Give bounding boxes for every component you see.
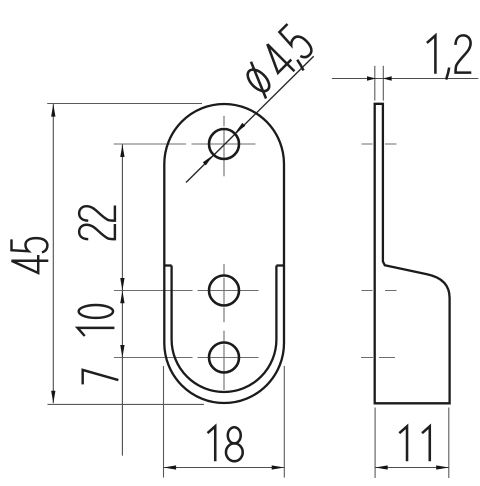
node hole1 top <box>209 129 239 159</box>
node arrow 11 right <box>436 465 449 469</box>
node outer stadium plate <box>164 104 284 403</box>
node hole2 vertical centerline <box>223 264 225 322</box>
node flange tick left <box>164 264 171 266</box>
node hole1 horizontal centerline <box>114 143 256 145</box>
node arrow 45 top <box>51 104 55 117</box>
node arrow 18 right <box>272 465 285 469</box>
node arrow 11 left <box>375 465 388 469</box>
wire dim 11 <box>375 467 449 469</box>
node text 11 <box>399 426 429 461</box>
node arrow 1,2 left <box>367 76 376 80</box>
node hole2 middle <box>209 276 239 306</box>
wire dim 18 <box>164 467 285 469</box>
node side hole2 centerline <box>362 290 397 292</box>
wire dim 1,2 <box>332 78 478 80</box>
node hole3 vertical centerline <box>223 331 225 390</box>
node flange tick right <box>276 264 284 266</box>
wire dim 45 vertical <box>52 104 54 403</box>
node text 7 <box>83 370 119 384</box>
node hole3 bottom <box>209 343 239 373</box>
node arrow 1,2 right <box>383 76 392 80</box>
wire ext 18 right <box>283 366 285 478</box>
node arrow 10 bottom <box>120 345 124 358</box>
node text 10 <box>78 305 115 336</box>
node arrow 10 top <box>120 291 124 304</box>
node arrow leader upper <box>233 123 245 135</box>
wire dim chain 22/10/7 vertical <box>121 144 123 455</box>
node text 1,2 <box>427 35 471 79</box>
node text 18 <box>208 426 243 461</box>
node side hole1 centerline <box>362 143 397 145</box>
node arrow 22 bottom <box>120 278 124 291</box>
node arrow leader lower <box>203 153 215 165</box>
wire ext 1,2 right <box>382 66 384 101</box>
node arrow 22 top <box>120 144 124 157</box>
node text dia 4,5 <box>239 23 319 103</box>
node hole1 vertical centerline <box>223 116 225 176</box>
node side profile <box>375 104 450 404</box>
node hole2 horizontal centerline <box>114 290 259 292</box>
wire ext 1,2 left <box>374 66 376 101</box>
node text 45 <box>11 238 48 273</box>
node side hole3 centerline <box>361 357 395 359</box>
wire ext 11 right <box>448 408 450 479</box>
node text 22 <box>79 206 115 240</box>
node inner flange U <box>172 266 277 392</box>
node hole3 horizontal centerline <box>114 357 259 359</box>
wire ext 18 left <box>163 366 165 478</box>
node arrow 18 left <box>164 465 177 469</box>
wire ext bottom (45/7) <box>48 403 205 405</box>
wire ext 11 left <box>374 408 376 479</box>
wire ext top (45) <box>47 103 202 105</box>
wire leader 4,5 <box>186 56 314 182</box>
node arrow 45 bottom <box>51 391 55 404</box>
